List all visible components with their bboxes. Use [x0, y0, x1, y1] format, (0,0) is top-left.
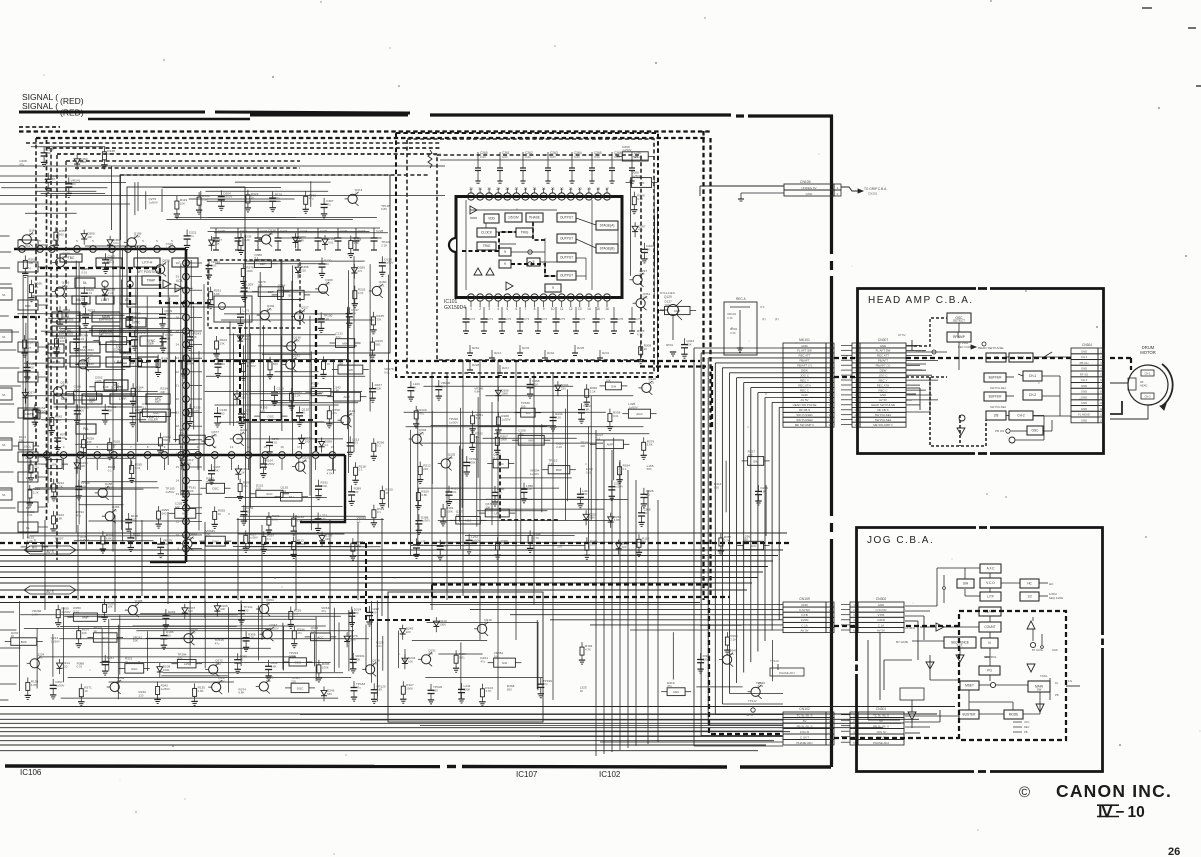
svg-text:TP301: TP301: [960, 341, 969, 345]
svg-text:AGC: AGC: [153, 411, 160, 415]
svg-text:1K: 1K: [413, 386, 417, 390]
svg-text:10K: 10K: [256, 487, 261, 491]
svg-text:220: 220: [501, 543, 506, 547]
svg-text:REC ATH: REC ATH: [877, 383, 889, 387]
svg-text:RF AMP: RF AMP: [953, 335, 965, 339]
JOG switch: [943, 575, 945, 586]
svg-text:220: 220: [268, 232, 273, 236]
BUFFER boxes: [984, 373, 1006, 382]
svg-text:8: 8: [534, 307, 536, 311]
svg-text:1K: 1K: [251, 195, 255, 199]
EMPHASIS boxes: [52, 312, 80, 322]
svg-text:C 1A: C 1A: [801, 623, 807, 627]
svg-text:100K: 100K: [439, 623, 446, 627]
svg-text:100: 100: [28, 261, 33, 265]
svg-text:MIX: MIX: [529, 439, 534, 443]
svg-text:100K: 100K: [163, 668, 170, 672]
svg-text:10K: 10K: [494, 655, 499, 659]
svg-text:4.7K: 4.7K: [298, 239, 304, 243]
svg-text:OSC: OSC: [212, 487, 219, 491]
svg-text:REC A: REC A: [736, 297, 746, 301]
svg-text:6.8K: 6.8K: [31, 683, 37, 687]
svg-text:OSC: OSC: [297, 686, 304, 690]
svg-text:0.01: 0.01: [550, 155, 556, 159]
extra dashed ring lines top: [26, 142, 440, 144]
svg-text:REC Y: REC Y: [800, 378, 809, 382]
svg-text:6.8K: 6.8K: [60, 436, 66, 440]
svg-text:6.8K: 6.8K: [647, 443, 653, 447]
lower IC pin row bus: [22, 454, 345, 457]
svg-text:TC SL /SL S: TC SL /SL S: [797, 713, 813, 717]
JOG blocks: [980, 564, 1001, 573]
svg-text:1K: 1K: [168, 613, 172, 617]
svg-text:10K: 10K: [266, 679, 271, 683]
svg-text:2.2K: 2.2K: [243, 312, 249, 316]
svg-text:0.01: 0.01: [525, 155, 531, 159]
svg-text:21: 21: [569, 187, 573, 191]
svg-text:SW PULSE1: SW PULSE1: [796, 413, 813, 417]
svg-text:GND: GND: [878, 603, 884, 607]
svg-text:15: 15: [176, 465, 180, 469]
JOG wires top: [937, 567, 980, 569]
svg-text:OUTPUT: OUTPUT: [560, 237, 573, 241]
svg-text:REC: REC: [1024, 725, 1030, 729]
svg-text:0.01: 0.01: [459, 656, 465, 660]
svg-text:6.8K: 6.8K: [57, 516, 63, 520]
svg-text:1K: 1K: [644, 511, 648, 515]
svg-text:AGC: AGC: [673, 690, 680, 694]
IC101 inner dashed box: [437, 155, 641, 360]
svg-text:47u: 47u: [19, 163, 24, 167]
svg-text:GND: GND: [801, 393, 807, 397]
bus band A: [0, 532, 787, 534]
svg-text:REC C: REC C: [879, 388, 888, 392]
verticals crossing band A: [44, 520, 46, 610]
svg-text:R228: R228: [472, 363, 480, 367]
svg-text:CN102: CN102: [799, 707, 810, 711]
svg-text:0.1: 0.1: [246, 286, 250, 290]
svg-text:GND: GND: [880, 344, 886, 348]
modulation rows: [48, 344, 64, 353]
svg-text:10K: 10K: [240, 395, 245, 399]
svg-text:0.1: 0.1: [646, 492, 650, 496]
dashed bus verticals right pair: [702, 131, 704, 600]
svg-text:0.01: 0.01: [614, 155, 620, 159]
head amp bold dashed bus: [906, 357, 1071, 359]
left IC pin row bus: [14, 248, 186, 251]
svg-text:220: 220: [423, 467, 428, 471]
svg-text:100K: 100K: [187, 361, 194, 365]
svg-text:2.2K: 2.2K: [243, 337, 249, 341]
svg-text:17: 17: [828, 423, 832, 427]
svg-text:C227: C227: [358, 229, 366, 233]
svg-text:C225: C225: [320, 229, 328, 233]
svg-text:CH-1: CH-1: [1081, 355, 1088, 359]
svg-text:R501: R501: [666, 343, 674, 347]
bold dashed bus meander left: [40, 268, 210, 303]
svg-text:6.8K: 6.8K: [297, 519, 303, 523]
svg-text:33K: 33K: [376, 317, 381, 321]
svg-text:ACC: ACC: [102, 636, 109, 640]
svg-text:C275: C275: [558, 317, 566, 321]
svg-text:3.3K: 3.3K: [727, 316, 733, 320]
svg-text:C273: C273: [522, 317, 530, 321]
svg-text:JOG SI: JOG SI: [876, 730, 886, 734]
svg-text:S/H: S/H: [611, 384, 616, 388]
svg-text:RF: RF: [1140, 380, 1144, 384]
svg-text:0.01: 0.01: [379, 283, 385, 287]
lower pin row circles: [27, 452, 34, 459]
JOG box frame: [857, 528, 977, 772]
svg-text:14: 14: [828, 408, 832, 412]
svg-text:2.2K: 2.2K: [27, 539, 33, 543]
svg-text:PHASE: PHASE: [529, 216, 540, 220]
svg-text:KILLER: KILLER: [148, 418, 158, 422]
svg-text:6.8K: 6.8K: [518, 432, 524, 436]
svg-text:100K: 100K: [187, 489, 194, 493]
svg-text:9: 9: [543, 307, 545, 311]
svg-text:16: 16: [280, 445, 284, 449]
svg-text:560: 560: [188, 609, 193, 613]
svg-text:V.C.O: V.C.O: [986, 581, 995, 585]
svg-text:10K: 10K: [220, 341, 225, 345]
svg-text:AV 5V: AV 5V: [801, 398, 809, 402]
svg-text:C221: C221: [240, 229, 248, 233]
svg-text:1K: 1K: [11, 634, 15, 638]
svg-text:100K: 100K: [464, 687, 471, 691]
svg-text:22: 22: [176, 370, 180, 374]
svg-text:1u/50V: 1u/50V: [449, 421, 458, 425]
svg-text:R231: R231: [602, 351, 610, 355]
svg-text:33K: 33K: [60, 339, 65, 343]
svg-text:560: 560: [743, 538, 748, 542]
wires into CN109: [430, 604, 783, 606]
svg-text:BUFFER: BUFFER: [989, 395, 1002, 399]
svg-text:33K: 33K: [87, 440, 92, 444]
svg-text:1K: 1K: [580, 689, 584, 693]
svg-text:24: 24: [542, 187, 546, 191]
svg-text:PB: PB: [1055, 693, 1059, 697]
svg-text:7: 7: [525, 307, 527, 311]
svg-text:10K: 10K: [215, 241, 220, 245]
svg-text:30: 30: [487, 187, 491, 191]
JOG inner wires: [989, 616, 991, 622]
svg-text:DET: DET: [260, 262, 266, 266]
JOG triangles: [1027, 621, 1035, 629]
JOG dashed bus rect: [959, 611, 1066, 740]
svg-text:PB ON: PB ON: [995, 429, 1004, 433]
svg-text:47u: 47u: [189, 536, 194, 540]
svg-text:2.2K: 2.2K: [724, 538, 730, 542]
AV tag 2: [24, 586, 76, 594]
svg-text:0.1: 0.1: [108, 468, 112, 472]
svg-text:DL: DL: [83, 281, 87, 285]
svg-text:100K: 100K: [321, 484, 328, 488]
svg-text:17: 17: [605, 187, 609, 191]
svg-text:28: 28: [506, 187, 510, 191]
svg-text:SW: SW: [633, 155, 638, 159]
JOG bottom bus dashed: [860, 737, 959, 739]
svg-text:100K: 100K: [246, 269, 253, 273]
svg-text:SW PULSE2: SW PULSE2: [990, 405, 1006, 409]
svg-text:SW PULSE1: SW PULSE1: [990, 386, 1006, 390]
wires out of CN307: [906, 345, 920, 347]
svg-text:2.2K: 2.2K: [108, 291, 114, 295]
svg-text:C226: C226: [340, 229, 348, 233]
svg-text:560: 560: [273, 362, 278, 366]
svg-text:TP112: TP112: [748, 699, 757, 703]
svg-text:2.2K: 2.2K: [555, 415, 561, 419]
IC101 body: [456, 197, 622, 298]
svg-text:PB: PB: [1024, 730, 1028, 734]
transistor Q129: [668, 305, 679, 316]
svg-text:PB OH: PB OH: [1080, 361, 1089, 365]
svg-text:0.01: 0.01: [135, 466, 141, 470]
svg-text:1u/50V: 1u/50V: [247, 364, 256, 368]
svg-text:100K: 100K: [95, 379, 102, 383]
svg-text:47u: 47u: [206, 480, 211, 484]
svg-text:PB SL /SL S: PB SL /SL S: [797, 724, 813, 728]
svg-text:6.8K: 6.8K: [320, 517, 326, 521]
svg-text:47u: 47u: [321, 609, 326, 613]
svg-text:10K: 10K: [163, 542, 168, 546]
svg-text:MOTOR: MOTOR: [1140, 350, 1156, 355]
svg-text:33K: 33K: [133, 639, 138, 643]
svg-text:47u: 47u: [177, 656, 182, 660]
svg-text:OSC: OSC: [268, 415, 275, 419]
svg-text:10K: 10K: [348, 413, 353, 417]
svg-text:SIGNAL (: SIGNAL (: [22, 101, 58, 111]
svg-text:220: 220: [244, 609, 249, 613]
svg-text:100: 100: [302, 459, 307, 463]
svg-text:10K: 10K: [28, 394, 33, 398]
svg-text:100: 100: [205, 533, 210, 537]
svg-text:C274: C274: [540, 317, 548, 321]
svg-text:47u: 47u: [480, 659, 485, 663]
svg-text:JOG: JOG: [1024, 720, 1029, 724]
svg-text:4.7K: 4.7K: [240, 431, 246, 435]
svg-text:6.8K: 6.8K: [614, 518, 620, 522]
svg-text:100: 100: [136, 389, 141, 393]
svg-text:SEP.: SEP.: [148, 342, 154, 346]
svg-text:0.01: 0.01: [352, 441, 358, 445]
nested thin rects left block: [120, 175, 390, 353]
svg-text:1u/50V: 1u/50V: [161, 687, 170, 691]
svg-text:BUF: BUF: [21, 640, 27, 644]
svg-text:10: 10: [176, 533, 180, 537]
svg-text:220: 220: [325, 281, 330, 285]
svg-text:0.1: 0.1: [642, 540, 646, 544]
IC101 internal blocks: [484, 214, 499, 223]
svg-text:GND: GND: [1081, 418, 1087, 422]
arrow TO GRIP CBA: [841, 187, 858, 191]
svg-text:33K: 33K: [46, 151, 51, 155]
svg-text:SW: SW: [52, 463, 57, 467]
svg-text:1K: 1K: [111, 316, 115, 320]
svg-text:560: 560: [497, 490, 502, 494]
svg-text:1K: 1K: [125, 660, 129, 664]
svg-text:2.2K: 2.2K: [532, 383, 538, 387]
svg-text:11: 11: [560, 307, 564, 311]
svg-text:C220: C220: [218, 229, 226, 233]
svg-text:16: 16: [605, 307, 609, 311]
svg-text:6.8K: 6.8K: [239, 691, 245, 695]
svg-text:20: 20: [176, 397, 180, 401]
svg-text:1K: 1K: [113, 443, 117, 447]
svg-text:100K: 100K: [375, 387, 382, 391]
svg-text:1u/50V: 1u/50V: [421, 519, 430, 523]
svg-text:TC SL /SL S: TC SL /SL S: [873, 713, 889, 717]
svg-text:GND: GND: [1081, 349, 1087, 353]
svg-text:100: 100: [107, 152, 112, 156]
svg-text:23: 23: [176, 356, 180, 360]
svg-text:0.01: 0.01: [85, 357, 91, 361]
svg-text:C277: C277: [598, 317, 606, 321]
svg-text:2.2K: 2.2K: [33, 490, 39, 494]
svg-text:33K: 33K: [192, 335, 197, 339]
svg-text:6.8K: 6.8K: [80, 160, 86, 164]
svg-text:ACC: ACC: [465, 519, 472, 523]
svg-text:6.8K: 6.8K: [193, 409, 199, 413]
svg-text:L.P.F-M: L.P.F-M: [180, 261, 191, 265]
svg-text:S/H: S/H: [525, 411, 530, 415]
svg-text:SW: SW: [1037, 688, 1042, 692]
IC101 pin circles top row: [467, 193, 474, 200]
svg-text:2: 2: [479, 307, 481, 311]
svg-text:R201: R201: [434, 153, 442, 157]
svg-text:0.01: 0.01: [451, 490, 457, 494]
svg-text:MIX: MIX: [318, 391, 323, 395]
caps row top mid: [215, 228, 217, 238]
drum motor arc arrow: [1162, 364, 1173, 406]
svg-text:MIX: MIX: [342, 341, 347, 345]
svg-text:CANON INC.: CANON INC.: [1056, 781, 1172, 801]
svg-text:2/8: 2/8: [994, 414, 999, 418]
svg-text:AV 5V: AV 5V: [801, 628, 809, 632]
svg-text:GND: GND: [1081, 384, 1087, 388]
svg-text:2.2K: 2.2K: [28, 341, 34, 345]
svg-text:13: 13: [176, 492, 180, 496]
svg-text:REC ATT: REC ATT: [799, 354, 811, 358]
svg-text:0.01: 0.01: [113, 241, 119, 245]
2/8 RF AMP + CH-2 HEAD AMP: [986, 411, 1006, 420]
bold dashed bus to head amp: [130, 360, 700, 362]
svg-text:LPF: LPF: [184, 662, 190, 666]
bold dashed bus segment mid: [432, 583, 708, 585]
svg-text:47u: 47u: [243, 484, 248, 488]
photocopy specks: [274, 577, 276, 579]
svg-text:DEW: DEW: [801, 369, 808, 373]
svg-text:0.1: 0.1: [325, 443, 329, 447]
svg-text:PB ON: PB ON: [916, 349, 925, 353]
svg-text:1u/50V: 1u/50V: [530, 472, 539, 476]
RF AMP box: [947, 332, 971, 342]
svg-text:MSET: MSET: [965, 684, 974, 688]
svg-text:14: 14: [176, 479, 180, 483]
dashed bus verticals left: [46, 140, 48, 520]
svg-text:26: 26: [524, 187, 528, 191]
svg-text:MUTE: MUTE: [51, 347, 60, 351]
svg-text:4.7K: 4.7K: [57, 484, 63, 488]
svg-text:22: 22: [560, 187, 564, 191]
svg-text:VDD: VDD: [488, 217, 495, 221]
svg-text:560: 560: [327, 692, 332, 696]
svg-text:33K: 33K: [19, 439, 24, 443]
svg-text:1u/50V: 1u/50V: [38, 410, 47, 414]
svg-text:GX150D4: GX150D4: [444, 305, 466, 311]
svg-text:R217: R217: [502, 366, 510, 370]
svg-text:V.P.B: V.P.B: [878, 613, 885, 617]
svg-text:C271: C271: [486, 317, 494, 321]
svg-text:6.8K: 6.8K: [271, 664, 277, 668]
svg-text:100: 100: [521, 405, 526, 409]
svg-text:10K: 10K: [82, 631, 87, 635]
svg-text:2.2K: 2.2K: [590, 390, 596, 394]
svg-text:10K: 10K: [260, 409, 265, 413]
svg-text:220: 220: [291, 680, 296, 684]
svg-text:CH-2: CH-2: [1081, 378, 1088, 382]
svg-text:47u: 47u: [357, 269, 362, 273]
filler components right-J: [765, 485, 767, 536]
svg-text:0.1: 0.1: [377, 444, 381, 448]
svg-text:560: 560: [166, 634, 171, 638]
OSC DETECT box: [947, 313, 971, 323]
APC row: [104, 380, 128, 390]
svg-text:220: 220: [301, 269, 306, 273]
vertical bus bundle right: [693, 348, 695, 746]
JOG lower wires: [979, 684, 990, 686]
svg-text:C278: C278: [616, 317, 624, 321]
svg-text:10K: 10K: [355, 657, 360, 661]
svg-text:UNREG 9V: UNREG 9V: [801, 186, 816, 190]
svg-text:0.1: 0.1: [623, 467, 627, 471]
svg-text:0.1: 0.1: [133, 536, 137, 540]
svg-text:S1: S1: [2, 293, 6, 297]
drum heads: [1141, 370, 1154, 376]
svg-text:100: 100: [305, 440, 310, 444]
7/8 RF AMP box: [986, 353, 1006, 362]
svg-text:17: 17: [297, 445, 301, 449]
svg-text:GND: GND: [1081, 395, 1087, 399]
svg-text:DET: DET: [155, 400, 161, 404]
svg-text:AMP: AMP: [82, 616, 89, 620]
svg-text:13: 13: [578, 307, 582, 311]
svg-text:0.1: 0.1: [357, 519, 361, 523]
svg-text:33K: 33K: [456, 513, 461, 517]
svg-text:IC106: IC106: [20, 768, 42, 777]
svg-text:26: 26: [1168, 846, 1180, 857]
filler components mid-I: [684, 338, 686, 344]
svg-text:CN307: CN307: [878, 338, 889, 342]
svg-text:TA/DL: TA/DL: [1040, 674, 1048, 678]
svg-text:2.2K: 2.2K: [442, 544, 448, 548]
svg-text:1u/50V: 1u/50V: [165, 490, 174, 494]
svg-text:100K: 100K: [322, 665, 329, 669]
svg-text:GND: GND: [801, 603, 807, 607]
svg-text:220: 220: [622, 545, 627, 549]
IC101 internal wires: [470, 209, 557, 211]
svg-text:24: 24: [176, 343, 180, 347]
svg-text:LPF: LPF: [494, 512, 500, 516]
svg-text:12: 12: [828, 398, 832, 402]
svg-text:10K: 10K: [606, 379, 611, 383]
svg-text:27: 27: [515, 187, 519, 191]
svg-text:33K: 33K: [80, 464, 85, 468]
svg-text:OSC: OSC: [1032, 429, 1040, 433]
svg-text:10: 10: [551, 307, 555, 311]
IC101 pin circles bottom row: [467, 294, 474, 301]
svg-text:1u/50V: 1u/50V: [105, 485, 114, 489]
